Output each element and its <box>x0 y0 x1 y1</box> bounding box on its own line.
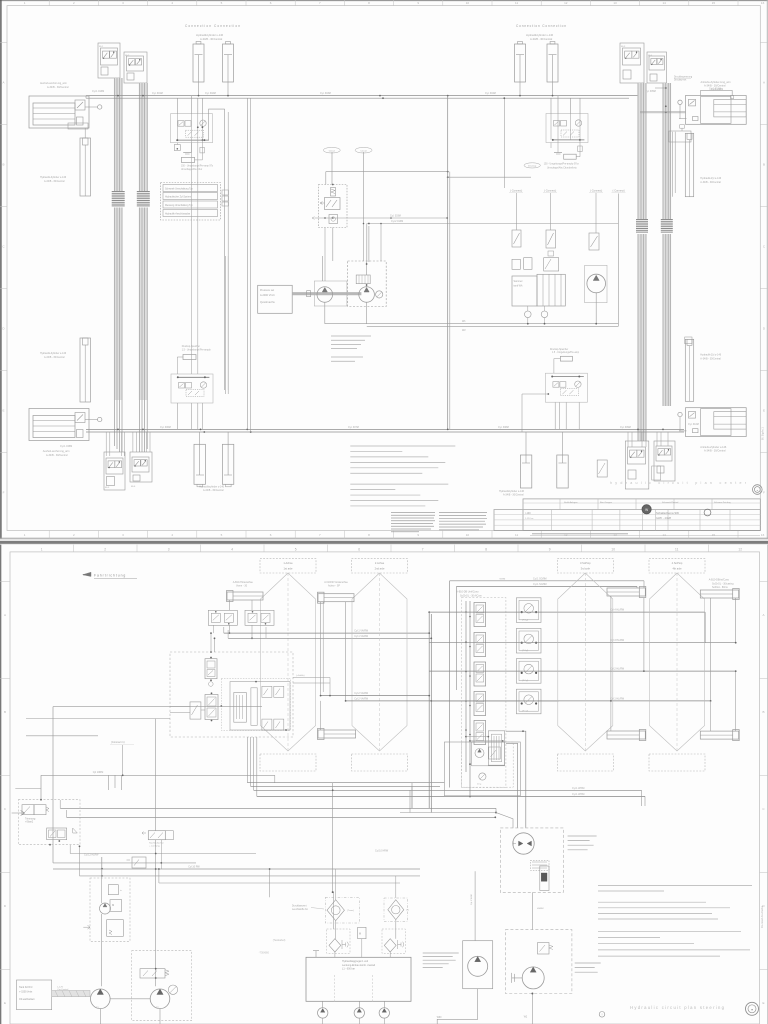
axle1 header box <box>260 559 316 573</box>
svg-text:A-34/B - 30/Central: A-34/B - 30/Central <box>503 494 524 497</box>
svg-text:(·Connect): (·Connect) <box>544 189 556 193</box>
fine print mini row <box>532 533 628 535</box>
svg-text:3: 3 <box>168 547 170 551</box>
V8 bus drops <box>656 432 658 446</box>
web wire h7 corner <box>59 800 61 808</box>
page2 left edge <box>0 545 2 1024</box>
svg-text:8: 8 <box>485 547 487 551</box>
supply corner right <box>643 581 645 588</box>
axle4 C loop <box>704 612 706 643</box>
axle3 hexagon <box>558 573 613 751</box>
small valve SV2 <box>546 230 556 248</box>
svg-text:A-34/B - 30/Central: A-34/B - 30/Central <box>700 181 721 184</box>
page2 margin column ticks <box>73 545 75 552</box>
svg-text:4: 4 <box>231 547 233 551</box>
web h5b right hooks <box>641 790 643 806</box>
motor MB circle <box>468 956 488 976</box>
direction arrow <box>83 574 91 576</box>
tank text box <box>17 980 52 1010</box>
bank valve symbols <box>474 603 486 627</box>
pump group dots <box>155 968 157 970</box>
slim cylinder S2 <box>80 338 91 402</box>
svg-text:9: 9 <box>549 547 551 551</box>
slim cylinder S1 <box>80 138 91 196</box>
bundle B1 hatch joints <box>112 191 125 193</box>
axle1 lock valve R <box>245 610 274 625</box>
solenoid SV <box>148 831 165 840</box>
fine print row underline <box>530 535 760 537</box>
svg-text:2nd axle: 2nd axle <box>375 567 385 571</box>
svg-text:Cyl.1 W/3M: Cyl.1 W/3M <box>572 793 584 796</box>
steering column part <box>234 693 247 723</box>
filter mid box <box>358 927 366 938</box>
svg-text:14: 14 <box>663 1 667 5</box>
svg-text:Antriebs-Zylinder-Ling_arm: Antriebs-Zylinder-Ling_arm <box>701 81 731 84</box>
block B wire <box>101 857 103 903</box>
title block stamp2 <box>704 509 711 516</box>
cylinder Z3 rod wire <box>519 82 521 96</box>
M0 inner verticals <box>176 114 178 140</box>
supply drop 1 <box>449 581 451 788</box>
pump group part2 <box>168 985 177 994</box>
web wire v7 <box>274 775 276 782</box>
steering unit drop <box>531 892 533 929</box>
svg-text:A-34/B - 30/Central: A-34/B - 30/Central <box>530 37 553 41</box>
filter G drops <box>334 952 336 957</box>
steering small valves A <box>262 686 272 697</box>
motor circle drops <box>322 1018 324 1024</box>
svg-text:12: 12 <box>564 1 568 5</box>
svg-text:Cyl. 303M: Cyl. 303M <box>390 215 401 218</box>
bundle B3 lower <box>637 234 646 441</box>
axle2 cylinder top <box>318 594 354 602</box>
legend table frame <box>161 183 221 221</box>
svg-text:tank WA: tank WA <box>514 285 523 288</box>
valve block V1 <box>98 43 120 78</box>
svg-text:A-B10-Hinterachse: A-B10-Hinterachse <box>233 581 254 584</box>
svg-text:-730/660: -730/660 <box>259 951 270 955</box>
page 2 paper <box>0 545 768 1024</box>
pump drop wires <box>99 1009 101 1024</box>
svg-text:1:124 av: 1:124 av <box>525 518 534 520</box>
svg-text:Drucksp: Drucksp <box>528 165 537 168</box>
axle3 footer box <box>557 754 613 771</box>
bank exit wire top <box>506 731 526 828</box>
manifold block dividers <box>333 975 335 1001</box>
notes block page1 <box>350 445 455 447</box>
central assembly inner box <box>221 678 290 730</box>
svg-text:W/3M: W/3M <box>500 578 506 580</box>
axle1 hexagon <box>261 573 316 751</box>
svg-text:SoChGL - 30/casing: SoChGL - 30/casing <box>712 582 734 585</box>
block B top rect <box>108 885 118 895</box>
pump PU1 housing <box>314 281 347 306</box>
svg-text:Schema-Zeichng: Schema-Zeichng <box>714 502 731 504</box>
filter row2 dashed R <box>382 929 405 953</box>
svg-text:2: 2 <box>104 547 106 551</box>
web wire v TR1 down <box>79 846 81 876</box>
svg-text:Connection Connection: Connection Connection <box>185 24 240 28</box>
svg-text:Cw-Control: Cw-Control <box>57 988 68 991</box>
valve cluster M1 frame <box>319 185 348 228</box>
legend row 2 <box>163 193 218 200</box>
svg-text:10: 10 <box>611 547 615 551</box>
valve cluster M3 <box>171 374 213 403</box>
legend side connector <box>222 190 229 195</box>
pump circle PC2 <box>150 989 170 1009</box>
M3 risers <box>191 143 193 374</box>
svg-text:Cyl.12 HLRW: Cyl.12 HLRW <box>84 853 99 856</box>
svg-text:A-34/B - 30/Central: A-34/B - 30/Central <box>44 180 65 183</box>
svg-text:150 - Umgebungs/Pre-amp 97x: 150 - Umgebungs/Pre-amp 97x <box>181 164 214 167</box>
web wire h12 <box>53 868 420 870</box>
svg-text:10: 10 <box>466 1 470 5</box>
valve block V6 <box>130 452 152 482</box>
svg-text:A-34/B - 30/Central: A-34/B - 30/Central <box>47 86 69 89</box>
svg-text:150 - Umgebungs/Pre-amp/p 97xx: 150 - Umgebungs/Pre-amp/p 97xx <box>544 163 580 166</box>
fine print block 1 <box>391 512 435 514</box>
svg-text:(T): (T) <box>406 910 409 912</box>
svg-text:Cyl. 308M: Cyl. 308M <box>498 426 509 429</box>
svg-text:A-B10-DB Umf/Cono: A-B10-DB Umf/Cono <box>456 591 479 594</box>
M0 drain comp <box>174 145 180 151</box>
svg-text:1.5 - Umgebungs/Pre-amp/p: 1.5 - Umgebungs/Pre-amp/p <box>182 348 212 351</box>
wire y171 junction <box>447 171 449 173</box>
svg-text:Sammel: Sammel <box>514 280 523 283</box>
svg-text:3.SoPtop: 3.SoPtop <box>580 561 591 565</box>
M0 riser wires to bus <box>176 98 178 114</box>
svg-text:15: 15 <box>712 1 716 5</box>
svg-text:E: E <box>763 409 765 413</box>
axle2 cylinder bottom <box>318 730 356 738</box>
pump link wire <box>110 998 150 1000</box>
web wire h4 <box>41 774 275 776</box>
suction hose <box>52 991 90 997</box>
web wire v14 <box>333 892 335 929</box>
bank bus wire 1 <box>465 601 467 772</box>
web wire h6b <box>257 795 645 797</box>
axle1 collector corners <box>223 627 225 633</box>
axle2 footer box <box>352 754 408 771</box>
oval label drucksp <box>524 163 540 168</box>
right assembly dashed <box>462 742 514 787</box>
CL4 drop <box>550 193 552 230</box>
fine print block 2 <box>439 512 487 514</box>
right assembly filter circle <box>479 773 486 780</box>
wire v x366.8 <box>366 224 368 263</box>
svg-text:Cyl.1 HL/RW: Cyl.1 HL/RW <box>610 697 625 700</box>
TR1 valve2 <box>47 828 67 840</box>
filter F1 diamond <box>327 900 344 921</box>
svg-text:(Tmax): (Tmax) <box>347 910 354 912</box>
svg-text:Stahl Anlagen: Stahl Anlagen <box>564 501 578 504</box>
web wire v5 <box>101 857 103 876</box>
svg-text:A 010/30 Vorderachse: A 010/30 Vorderachse <box>324 581 348 584</box>
steering small valves B <box>262 719 272 730</box>
svg-text:F a h r t r i c h t u n g: F a h r t r i c h t u n g <box>94 574 125 578</box>
axle2 header box <box>352 559 408 573</box>
manifold top wires <box>322 256 324 281</box>
svg-text:16: 16 <box>761 1 765 5</box>
svg-text:L1 - 600 bar: L1 - 600 bar <box>342 968 355 971</box>
svg-text:A-34/B - 30/Central: A-34/B - 30/Central <box>200 37 223 41</box>
svg-text:A-34/B - 30/Central: A-34/B - 30/Central <box>704 450 726 453</box>
manifold inlet box <box>258 285 293 313</box>
svg-text:B: B <box>2 163 4 167</box>
svg-text:Pressure set: Pressure set <box>260 289 274 292</box>
svg-text:3rd axle: 3rd axle <box>581 567 591 571</box>
pump P2 tail box <box>669 131 691 142</box>
V6 bus drops <box>132 432 134 452</box>
svg-text:11: 11 <box>515 533 518 537</box>
svg-text:r-100: r-100 <box>525 512 531 515</box>
bundle B2 lower <box>139 208 148 401</box>
page gap band <box>0 539 768 545</box>
assembly drop bundle <box>246 737 248 783</box>
svg-text:5: 5 <box>295 547 297 551</box>
web wire h14 <box>159 882 400 884</box>
svg-text:Cyl.3 HL/RW: Cyl.3 HL/RW <box>610 639 625 642</box>
svg-text:Hydraulik-Anschlussplan: Hydraulik-Anschlussplan <box>165 212 191 215</box>
svg-text:Cyl 10RM: Cyl 10RM <box>93 771 104 774</box>
svg-text:Qvootmax/hu: Qvootmax/hu <box>260 301 275 304</box>
cylinder Z5 <box>194 444 205 484</box>
svg-text:Hydraulikzylinder u-146: Hydraulikzylinder u-146 <box>196 33 224 37</box>
block B left filter <box>83 925 90 929</box>
cylinder Z1 <box>193 44 204 82</box>
svg-text:14: 14 <box>663 533 667 537</box>
M0 foot symbol <box>183 152 191 154</box>
svg-text:Umschage/Abs.Churube/brtu: Umschage/Abs.Churube/brtu <box>547 166 577 169</box>
TR1 solenoid <box>22 805 34 815</box>
wire h y171.6 left turn <box>325 172 327 185</box>
svg-text:hydraulic circuit plan center: hydraulic circuit plan center <box>610 481 747 485</box>
svg-text:Aushub-anchor-ing_arm: Aushub-anchor-ing_arm <box>43 450 70 453</box>
return wire pair H <box>325 323 619 325</box>
svg-text:A-34/B - 30/Central: A-34/B - 30/Central <box>44 356 65 359</box>
svg-text:A: A <box>4 613 6 617</box>
page1 right edge <box>766 0 768 539</box>
assembly feed wires <box>210 633 212 652</box>
svg-text:Drucksp-set: Drucksp-set <box>674 78 687 81</box>
svg-text:Schwenk-Umschaltung Typ: Schwenk-Umschaltung Typ <box>165 187 194 190</box>
web wire h8 <box>67 816 496 818</box>
svg-text:W: W <box>645 508 648 512</box>
connect label CL1 <box>323 147 340 153</box>
svg-text:A-34/B - 30/Central: A-34/B - 30/Central <box>700 357 721 360</box>
svg-text:B: B <box>4 710 6 714</box>
page2 drawing frame <box>10 552 760 1024</box>
central inner solid box <box>230 682 290 730</box>
svg-text:Cyl. 302M: Cyl. 302M <box>205 92 216 95</box>
web wire v13 <box>269 869 271 897</box>
svg-text:Hydraulischer Zyl.System: Hydraulischer Zyl.System <box>165 195 191 198</box>
pump circle PU2 <box>359 287 375 303</box>
riser pair RP1 <box>246 98 248 429</box>
wire h y218 dots <box>390 217 392 219</box>
bundle B4 lower <box>662 234 671 406</box>
filter G2 <box>384 939 396 952</box>
axle1 drop wires <box>229 600 231 610</box>
tank comb <box>537 274 565 306</box>
pump station P4 <box>686 408 747 437</box>
svg-text:Cyl. 304M: Cyl. 304M <box>485 92 496 95</box>
web wire h7b <box>400 812 496 814</box>
cluster M1 drop wires <box>324 228 326 282</box>
bus1 junction dots <box>198 95 200 97</box>
web wire h13 <box>80 875 421 877</box>
valve block V2 drop wires <box>139 83 148 191</box>
svg-text:Messung Umschaltung Typ: Messung Umschaltung Typ <box>165 204 193 207</box>
notes page2 para1 <box>598 884 752 886</box>
small valve SV3 <box>589 233 599 250</box>
svg-text:Cyl.1 013M: Cyl.1 013M <box>709 88 721 90</box>
svg-text:M: M <box>112 903 114 907</box>
svg-text:4.SoPtop: 4.SoPtop <box>672 561 683 565</box>
svg-text:F: F <box>3 491 5 495</box>
bundle B1 lower <box>114 208 123 401</box>
svg-text:B: B <box>763 163 765 167</box>
axle1 collector wires <box>224 632 429 634</box>
svg-text:Cyl.1 SO/9M: Cyl.1 SO/9M <box>533 583 547 586</box>
svg-text:Drucksp-Speicher: Drucksp-Speicher <box>550 348 568 351</box>
web wire h5 <box>247 782 444 784</box>
page1 top edge <box>0 0 768 2</box>
bank exit wire 2 <box>506 743 518 828</box>
svg-text:Cyl.1 W/3M: Cyl.1 W/3M <box>572 787 584 790</box>
cyl line 4 <box>431 700 710 702</box>
svg-text:Cyl. 303M: Cyl. 303M <box>320 92 331 95</box>
bundle B2 hatch joints <box>137 191 150 193</box>
valve block V3 <box>620 43 644 83</box>
bus1 right drop wire <box>503 98 505 188</box>
steering motor label <box>575 962 601 964</box>
svg-text:A-34/B - 30/Central: A-34/B - 30/Central <box>46 454 68 457</box>
slim cylinder S1 feed <box>84 128 86 138</box>
page1 margin row ticks <box>0 42 7 44</box>
wire h y177.2 <box>448 176 531 178</box>
page2 right edge <box>766 545 768 1024</box>
filter G1 <box>329 939 341 952</box>
web wire h7 <box>60 807 496 809</box>
valve block V1 drop wires <box>114 78 123 191</box>
central assembly dashed box <box>170 652 293 737</box>
filter row2 dashed L <box>327 929 350 953</box>
block B pump circle <box>100 903 111 914</box>
svg-text:L-12V: L-12V <box>57 986 63 988</box>
right assembly inner <box>472 742 505 766</box>
valve group TR1 box <box>18 800 80 845</box>
drain wires <box>527 306 529 311</box>
M4 left feed wire <box>522 393 548 395</box>
riser pair RP2 <box>225 256 227 394</box>
M4 accumulator A4 <box>560 356 572 361</box>
svg-text:Hydraulik-Zylinder u-146: Hydraulik-Zylinder u-146 <box>40 352 67 355</box>
wire h y218 <box>315 217 448 219</box>
supply drop 2 <box>456 586 458 690</box>
cylinder Z1 rod wire <box>198 82 200 96</box>
bus2 wire lower <box>86 431 684 433</box>
web frame arrow <box>12 811 25 816</box>
svg-text:6: 6 <box>358 547 360 551</box>
accumulator A2 <box>564 154 577 159</box>
svg-text:Cyl.1 VA/RW: Cyl.1 VA/RW <box>354 630 368 633</box>
M3 riser pair right <box>224 109 226 390</box>
cylinder Z8 <box>557 455 568 488</box>
svg-text:SoChGL - 30 A/Com: SoChGL - 30 A/Com <box>460 594 482 597</box>
manifold bottom stubs <box>322 1001 324 1007</box>
axle1 footer box <box>260 754 316 771</box>
svg-text:HSRM: HSRM <box>537 908 544 910</box>
svg-text:Cyl. 305M: Cyl. 305M <box>645 90 656 93</box>
cylinder Z2 rod wire <box>227 82 229 96</box>
axle1 valve inner drops <box>213 625 215 633</box>
svg-text:Cyl. 310M: Cyl. 310M <box>688 423 699 426</box>
TR1 dots <box>49 844 51 846</box>
svg-text:(P.Cyl): (P.Cyl) <box>522 680 528 682</box>
svg-text:Durchlassvent: Durchlassvent <box>292 905 307 908</box>
M2 inner verticals <box>550 114 552 140</box>
web wire h2 <box>26 718 170 720</box>
small circle symbol <box>599 1012 605 1018</box>
axle2 hexagon <box>352 573 407 751</box>
motor MB feed <box>474 871 476 940</box>
cyl line 2 <box>429 642 736 644</box>
svg-text:M: M <box>359 933 361 936</box>
frame stub wire <box>15 788 41 790</box>
svg-text:Hydraulikaggregat 1 und: Hydraulikaggregat 1 und <box>342 960 369 963</box>
pump drive shaft <box>292 292 361 295</box>
right assembly pump <box>475 749 484 758</box>
svg-text:Trimmung: Trimmung <box>25 818 36 821</box>
valve cluster M1 spring <box>331 188 336 197</box>
cylinder Z4 <box>547 44 558 82</box>
valve block V4 <box>647 52 667 83</box>
svg-text:Cyl.2 VA/RW: Cyl.2 VA/RW <box>354 692 368 695</box>
svg-text:B: B <box>762 710 764 714</box>
steering motor circle <box>522 967 544 989</box>
svg-text:(P.Cyl): (P.Cyl) <box>522 711 528 713</box>
pump station P1 <box>29 96 89 128</box>
bus2 junction dots <box>447 429 449 431</box>
svg-text:Hydraulik-Zyl u-146: Hydraulik-Zyl u-146 <box>700 354 721 357</box>
motor MB drop <box>437 989 478 1024</box>
slim cylinder S4 cap box <box>685 337 692 344</box>
axle3 cylinder bottom <box>607 731 645 739</box>
svg-text:16: 16 <box>761 533 765 537</box>
svg-text:(Connect 1): (Connect 1) <box>111 740 125 744</box>
svg-text:E: E <box>4 1001 6 1005</box>
motor circle MC2 <box>354 1008 364 1018</box>
steering thin part <box>251 688 257 726</box>
svg-text:11: 11 <box>515 1 518 5</box>
motor circle MC3 <box>379 1008 389 1018</box>
title block logo <box>642 505 651 514</box>
page1 margin column ticks <box>48 0 50 6</box>
axle3 cylinder top <box>607 588 645 596</box>
bank bottom joints <box>465 736 467 738</box>
web wire h5b <box>254 789 642 791</box>
right assembly outer <box>444 742 520 796</box>
svg-text:A-2000 V/4-h: A-2000 V/4-h <box>260 294 275 297</box>
axle2 collector wires <box>321 695 430 697</box>
svg-text:(P.Cyl): (P.Cyl) <box>522 650 528 652</box>
svg-text:1.Achse: 1.Achse <box>283 561 293 565</box>
web wire v8 <box>158 869 160 883</box>
svg-text:1: 1 <box>41 547 43 551</box>
tank block box <box>512 276 537 306</box>
bundle to pump wire <box>640 111 686 113</box>
